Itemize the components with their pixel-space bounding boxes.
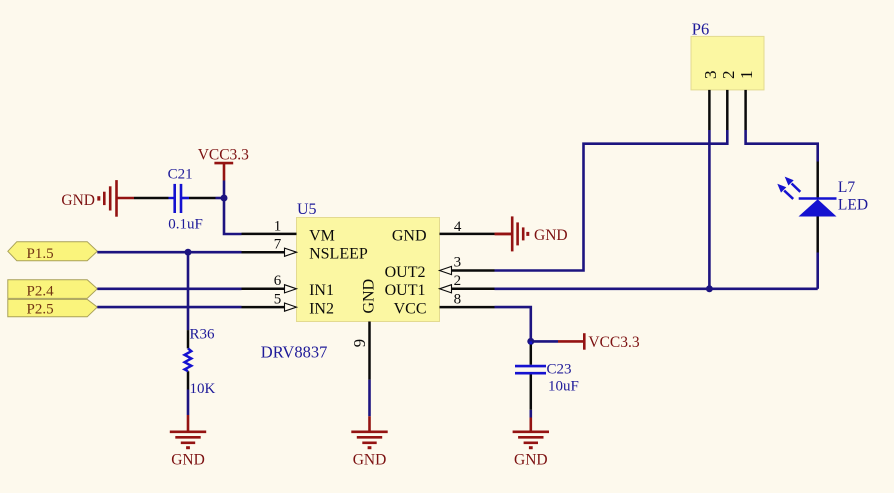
wire C21 left segment <box>169 197 175 199</box>
flag P2.5 <box>8 299 98 316</box>
pin U5.5 arrowhead <box>285 303 297 311</box>
pin U5.8 VCC <box>440 306 495 309</box>
svg-text:OUT1: OUT1 <box>385 282 426 299</box>
svg-text:C21: C21 <box>168 166 193 182</box>
svg-text:GND: GND <box>361 279 378 314</box>
pin U5.6 IN1 <box>242 288 285 291</box>
LED L7 triangle <box>799 199 837 216</box>
pin U5.3 OUT2 <box>452 269 495 272</box>
svg-text:8: 8 <box>454 291 462 307</box>
wire P6 pin1 to LED top <box>746 130 818 162</box>
node junction VCC3.3/C21 <box>221 195 228 202</box>
svg-text:P2.5: P2.5 <box>27 302 54 318</box>
wire C21 right lead to junction <box>216 197 225 200</box>
pin U5.7 arrowhead <box>285 248 297 256</box>
svg-text:C23: C23 <box>547 362 572 378</box>
pin LED bottom <box>816 217 819 253</box>
wire LED bottom to OUT1 net <box>816 253 819 289</box>
wire P2.5 to IN2 <box>97 306 241 309</box>
svg-text:10uF: 10uF <box>548 378 579 394</box>
ground symbol R36 <box>170 415 206 448</box>
pin U5.3 arrowhead <box>440 266 452 274</box>
svg-text:NSLEEP: NSLEEP <box>309 246 368 263</box>
svg-text:1: 1 <box>737 71 756 80</box>
capacitor C23 plates <box>515 341 546 373</box>
pin U5.5 IN2 <box>242 306 285 309</box>
svg-text:7: 7 <box>274 237 282 253</box>
svg-text:VCC: VCC <box>394 301 427 318</box>
wire OUT2 to P6 pin2 <box>495 130 728 271</box>
svg-text:GND: GND <box>171 451 205 468</box>
svg-text:3: 3 <box>454 255 462 271</box>
pin U5.9 GND bottom <box>368 322 371 380</box>
pin C21 right <box>189 197 216 200</box>
pin C23 top <box>530 345 533 365</box>
svg-text:IN1: IN1 <box>309 282 334 299</box>
flag P2.4 <box>8 280 98 299</box>
pin R36 bottom <box>187 371 190 389</box>
node junction VCC/C23 <box>527 338 534 345</box>
svg-text:10K: 10K <box>190 381 216 397</box>
pin U5.4 GND <box>440 233 495 236</box>
LED arrow 1 <box>777 184 793 199</box>
svg-text:2: 2 <box>454 273 462 289</box>
pin U5.2 arrowhead <box>440 285 452 293</box>
svg-text:P6: P6 <box>692 19 709 38</box>
svg-text:3: 3 <box>701 71 720 80</box>
svg-text:VCC3.3: VCC3.3 <box>588 334 639 351</box>
pin P6.1 <box>744 90 747 130</box>
wire junction down to R36 <box>187 252 190 330</box>
ground symbol C23 <box>513 418 549 448</box>
node junction P1.5/R36 <box>185 249 192 256</box>
LED arrow 2 <box>785 177 801 192</box>
wire P6 pin3 down to OUT1 net <box>708 130 711 289</box>
pin LED top <box>816 162 819 198</box>
svg-text:U5: U5 <box>297 201 317 218</box>
svg-text:IN2: IN2 <box>309 301 334 318</box>
svg-text:0.1uF: 0.1uF <box>168 217 203 233</box>
wire P2.4 to IN1 <box>97 287 241 290</box>
pin U5.6 arrowhead <box>285 285 297 293</box>
pin U5.2 OUT1 <box>452 288 495 291</box>
svg-text:4: 4 <box>454 219 462 235</box>
svg-text:GND: GND <box>514 451 548 468</box>
connector P6 body <box>691 36 764 90</box>
pin U5.7 NSLEEP <box>242 251 285 254</box>
svg-text:P2.4: P2.4 <box>27 283 55 299</box>
svg-text:GND: GND <box>392 227 427 244</box>
svg-text:P1.5: P1.5 <box>27 246 54 262</box>
capacitor C21 plates <box>175 184 189 213</box>
svg-text:LED: LED <box>838 196 868 213</box>
svg-text:GND: GND <box>534 227 568 244</box>
ground symbol pin9 <box>351 416 387 447</box>
svg-text:L7: L7 <box>838 179 855 196</box>
svg-text:DRV8837: DRV8837 <box>261 343 328 362</box>
svg-text:2: 2 <box>719 71 738 80</box>
pin C21 left <box>134 197 169 200</box>
svg-text:1: 1 <box>274 218 282 234</box>
svg-text:OUT2: OUT2 <box>385 264 426 281</box>
svg-text:R36: R36 <box>190 327 216 343</box>
wire net VCC3.3 top to VM <box>224 181 242 235</box>
svg-text:5: 5 <box>274 291 282 307</box>
svg-text:VM: VM <box>309 227 335 244</box>
svg-text:6: 6 <box>274 273 282 289</box>
node junction OUT1/P6 pin3 <box>706 285 713 292</box>
wire C23 bottom to GND <box>529 410 532 418</box>
resistor R36 zigzag <box>185 348 192 371</box>
svg-text:GND: GND <box>61 192 95 209</box>
pin4 to GND red segment <box>495 233 513 236</box>
pin P6.3 <box>708 90 711 130</box>
flag P1.5 <box>8 242 98 261</box>
wire pin9 to GND <box>368 380 371 417</box>
supply VCC3.3 right symbol <box>558 333 584 350</box>
ground symbol right (pin4) <box>495 216 528 251</box>
wire R36 bottom to GND <box>187 390 190 416</box>
svg-text:VCC3.3: VCC3.3 <box>198 147 249 164</box>
ground symbol left (C21) <box>99 180 134 217</box>
supply VCC3.3 top symbol <box>214 163 233 180</box>
pin C23 bottom <box>530 375 533 410</box>
wire VCC pin8 to junction <box>495 307 559 341</box>
pin R36 top <box>187 330 190 348</box>
pin P6.2 <box>726 90 729 130</box>
IC U5 body <box>297 218 440 322</box>
pin U5.1 VM <box>242 233 297 236</box>
wire OUT1 to LED bottom <box>495 287 818 290</box>
LED L7 cathode bar <box>799 197 837 200</box>
svg-text:9: 9 <box>350 339 369 347</box>
wire P1.5 to NSLEEP <box>97 251 241 254</box>
svg-text:GND: GND <box>353 451 387 468</box>
